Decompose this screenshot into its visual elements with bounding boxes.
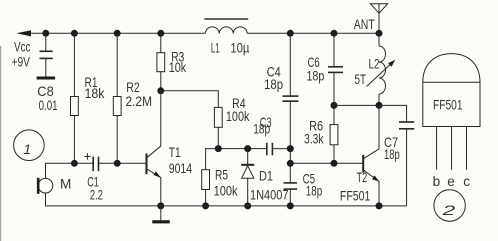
node R1 rail junction — [71, 30, 78, 37]
antenna ANT — [371, 4, 388, 34]
svg-text:b: b — [433, 174, 441, 189]
resistor R5 — [202, 170, 210, 206]
svg-text:2.2: 2.2 — [90, 187, 103, 202]
svg-text:18k: 18k — [85, 86, 105, 101]
svg-text:T2: T2 — [357, 170, 368, 185]
wire Vcc rail right segment — [247, 32, 379, 34]
node R3/T1 collector/R4 junction — [157, 87, 164, 94]
package pin c — [466, 127, 468, 170]
svg-text:18p: 18p — [253, 122, 270, 137]
resistor R6 — [330, 125, 338, 164]
svg-text:2: 2 — [441, 203, 456, 218]
svg-text:100k: 100k — [214, 183, 238, 198]
L1 core bar — [204, 18, 248, 20]
node D1 top junction — [244, 145, 251, 152]
node C6 rail junction — [331, 30, 338, 37]
capacitor C8 — [40, 33, 53, 76]
node C5 bottom junction — [287, 202, 294, 209]
node D1 bottom junction — [244, 202, 251, 209]
node R2 bottom junction — [114, 160, 121, 167]
wire C7 bottom to ground rail — [379, 205, 407, 207]
microphone M — [37, 178, 53, 194]
node R5 bottom junction — [202, 202, 209, 209]
svg-text:18p: 18p — [384, 147, 400, 162]
wire mic top to C1 line — [46, 163, 94, 178]
inductor L2 — [379, 33, 386, 105]
node T2 emitter ground junction — [376, 202, 383, 209]
svg-text:100k: 100k — [226, 109, 250, 124]
inductor L1 — [205, 27, 247, 33]
svg-text:M: M — [60, 177, 71, 192]
capacitor C3 — [267, 143, 291, 156]
capacitor C5 — [284, 183, 298, 206]
node R3 rail junction — [157, 30, 164, 37]
node C4 rail junction — [287, 30, 294, 37]
svg-text:18p: 18p — [306, 183, 323, 198]
svg-text:FF501: FF501 — [340, 188, 371, 203]
node C6/L2 junction — [331, 102, 338, 109]
capacitor C4 — [283, 33, 299, 183]
wire R4/R5/D1/C3 node line — [206, 149, 267, 170]
svg-text:L1: L1 — [211, 41, 220, 56]
svg-text:e: e — [447, 174, 455, 189]
ground main — [152, 206, 170, 224]
section marker 1 — [14, 130, 45, 161]
svg-text:1N4007: 1N4007 — [250, 187, 289, 202]
svg-text:+9V: +9V — [12, 55, 31, 70]
svg-text:T1: T1 — [169, 145, 181, 160]
package pin b — [436, 127, 438, 170]
svg-text:1: 1 — [24, 142, 32, 157]
node C3/C4 junction — [287, 145, 294, 152]
svg-text:Vcc: Vcc — [14, 40, 31, 55]
C1 polarity plus — [84, 153, 90, 159]
node R2 rail junction — [114, 30, 121, 37]
svg-text:9014: 9014 — [169, 161, 193, 176]
svg-text:18p: 18p — [264, 77, 283, 92]
Vcc supply arrow — [17, 30, 32, 36]
svg-text:2.2M: 2.2M — [126, 94, 153, 109]
svg-text:R5: R5 — [215, 167, 228, 182]
wire ground rail right — [161, 205, 379, 207]
svg-text:ANT: ANT — [354, 17, 375, 32]
resistor R4 — [161, 91, 222, 149]
svg-text:L2: L2 — [369, 57, 380, 72]
node L2 bottom junction — [376, 102, 383, 109]
resistor R2 — [113, 33, 121, 163]
svg-text:10µ: 10µ — [230, 41, 249, 56]
package pin e — [451, 127, 453, 170]
svg-text:D1: D1 — [259, 168, 273, 183]
wire C6 to L2 column — [334, 104, 379, 106]
svg-text:R2: R2 — [126, 80, 140, 95]
capacitor C6 — [328, 33, 343, 124]
wire L2 to C7 top — [379, 105, 407, 122]
svg-text:c: c — [463, 174, 470, 189]
node R4 bottom junction — [215, 145, 222, 152]
resistor R1 — [71, 33, 79, 163]
transistor T1 9014 — [147, 91, 161, 206]
transistor T2 FF501 — [363, 105, 379, 205]
node C8 rail junction — [42, 30, 49, 37]
section marker 2 — [434, 190, 465, 221]
svg-text:5T: 5T — [355, 72, 367, 87]
svg-text:FF501: FF501 — [433, 97, 463, 112]
svg-text:18p: 18p — [307, 68, 325, 83]
svg-text:10k: 10k — [169, 60, 187, 75]
svg-text:C8: C8 — [37, 84, 54, 99]
ground C8 — [37, 77, 56, 80]
svg-text:3.3k: 3.3k — [304, 131, 324, 146]
diode D1 1N4007 — [241, 149, 254, 206]
transistor package FF501 outline — [423, 54, 480, 127]
node R6 bottom junction — [331, 160, 338, 167]
L2 variable arrow — [367, 60, 396, 87]
capacitor C7 — [399, 122, 414, 206]
capacitor C1 — [93, 157, 146, 172]
scan border left edge — [0, 46, 2, 241]
wire T2 base line — [290, 162, 363, 164]
node R1 bottom junction — [71, 160, 78, 167]
wire mic bottom to ground rail — [46, 193, 161, 206]
node C4/C5/base junction — [287, 160, 294, 167]
wire Vcc rail left segment — [30, 32, 205, 34]
resistor R3 — [157, 33, 165, 91]
svg-text:0.01: 0.01 — [39, 98, 58, 113]
node T1 emitter ground junction — [157, 202, 164, 209]
node ANT rail junction — [376, 30, 383, 37]
